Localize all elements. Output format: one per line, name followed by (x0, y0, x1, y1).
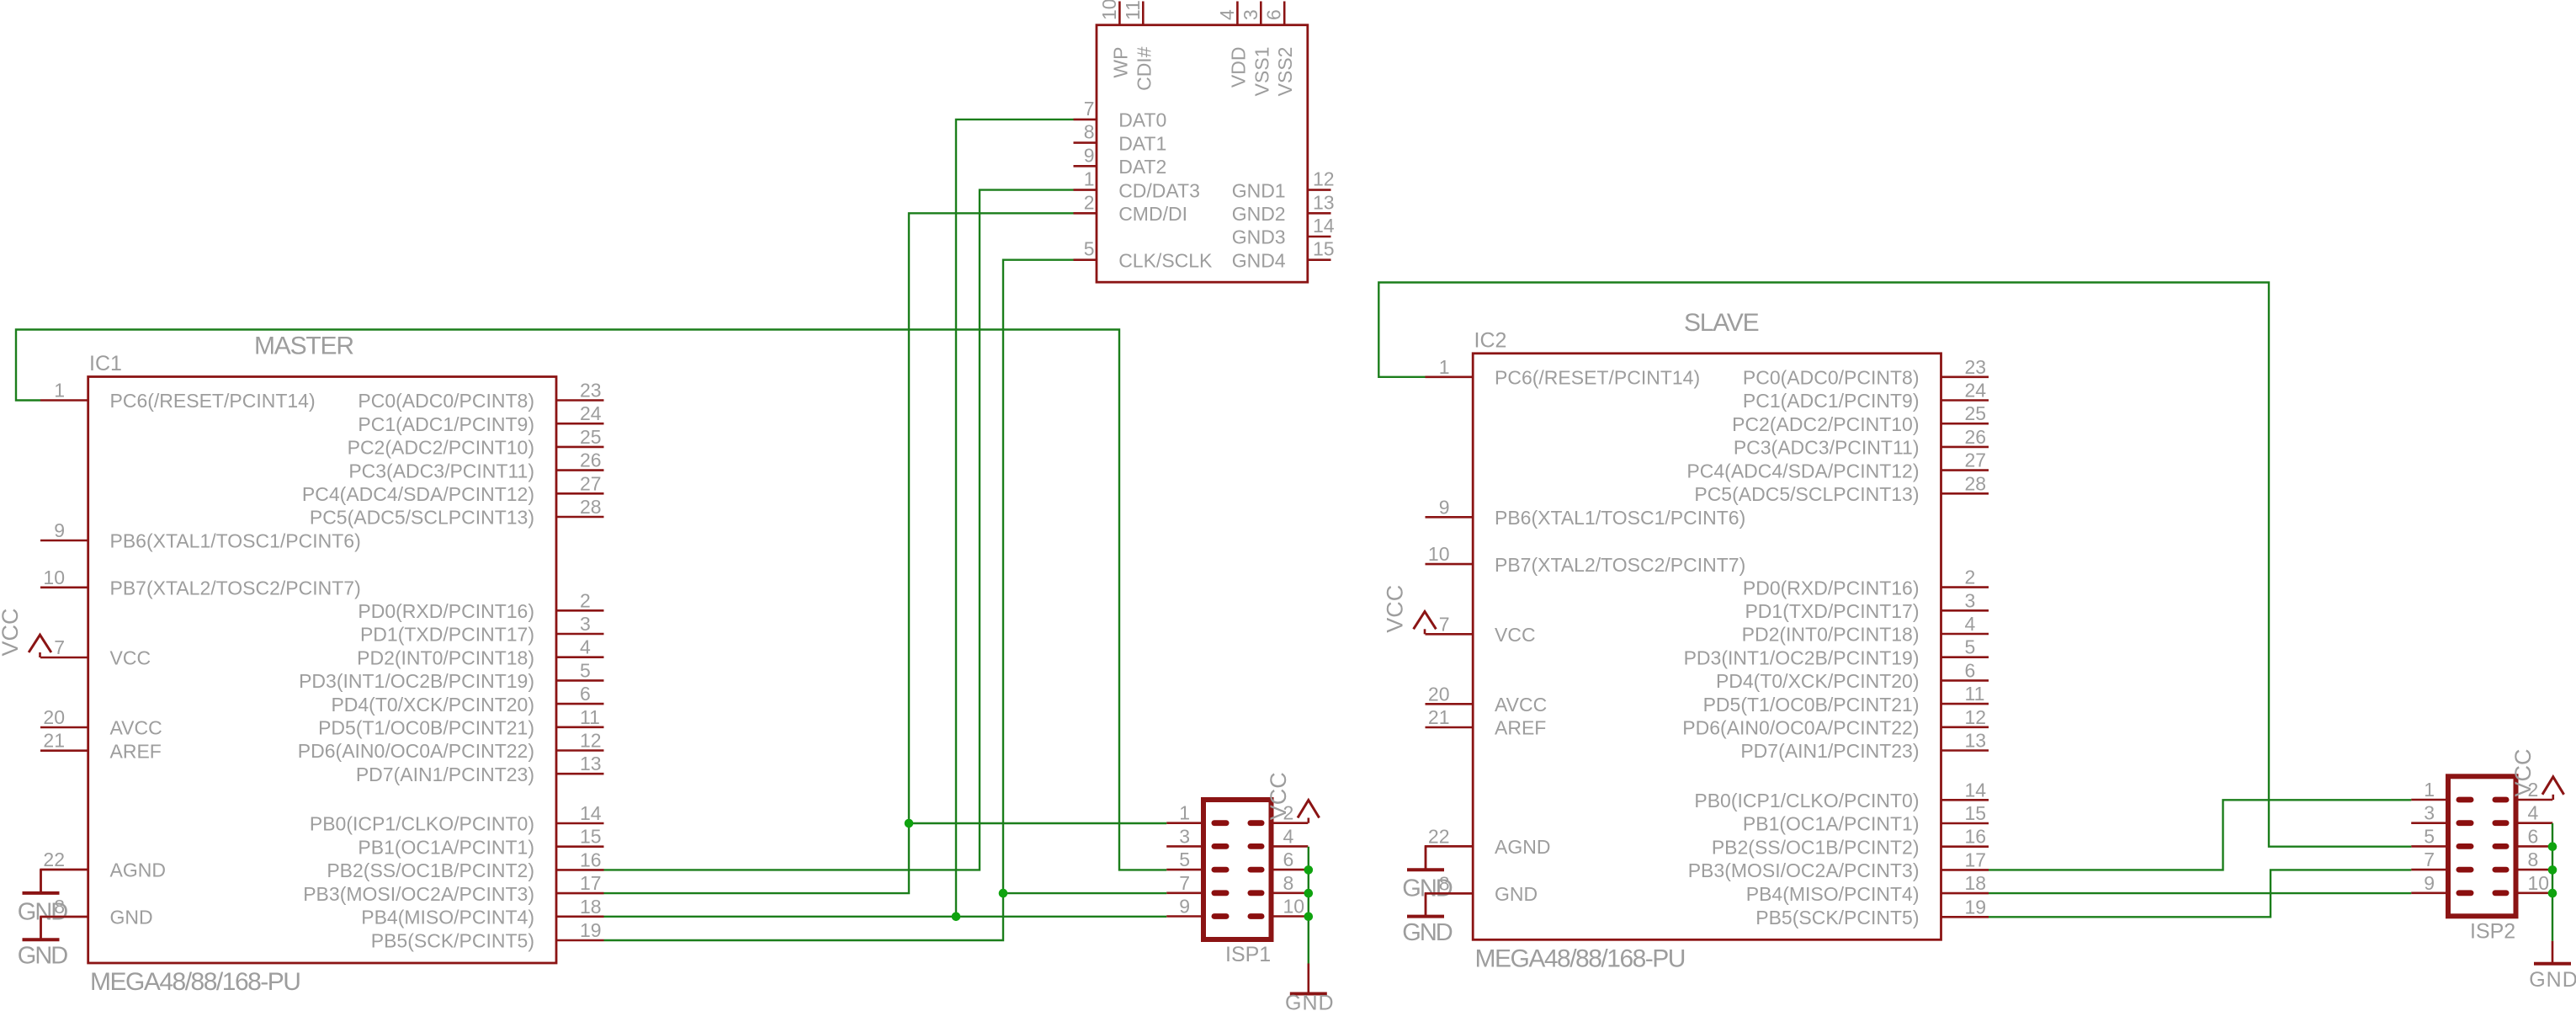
IC2 body outline (1473, 354, 1941, 940)
IC2 pin 4 PD2(INT0/PCINT18) (1742, 613, 1989, 646)
ISP2 pin 1 (2411, 779, 2473, 802)
IC2 pin 19 PB5(SCK/PCINT5) (1755, 896, 1989, 929)
ISP1 pin 7 (1166, 872, 1229, 896)
svg-text:26: 26 (580, 450, 602, 471)
svg-text:26: 26 (1965, 426, 1987, 448)
svg-text:13: 13 (1313, 191, 1335, 213)
svg-text:ISP1: ISP1 (1225, 943, 1271, 966)
svg-text:DAT2: DAT2 (1118, 156, 1166, 178)
svg-text:6: 6 (1263, 9, 1285, 20)
svg-text:3: 3 (580, 613, 591, 635)
svg-text:GND3: GND3 (1232, 226, 1286, 248)
ground symbol GND under ISP1 (1285, 964, 1335, 1011)
SD pin 2 CMD/DI (1074, 191, 1187, 225)
IC2 pin 2 PD0(RXD/PCINT16) (1743, 567, 1989, 599)
IC1 pin 26 PC3(ADC3/PCINT11) (348, 450, 603, 482)
wire net MOSI2: IC2 PB3 pin17 to ISP2 pin1 (1989, 800, 2411, 870)
SD pin 6 VSS2 (top) (1263, 2, 1297, 97)
IC2 pin 1 PC6(/RESET/PCINT14) (1426, 356, 1701, 389)
svg-text:9: 9 (54, 519, 65, 541)
IC1 pin 9 PB6(XTAL1/TOSC1/PCINT6) (40, 519, 361, 552)
svg-text:7: 7 (1179, 872, 1190, 894)
SD pin 10 WP (top) (1098, 0, 1132, 78)
svg-text:GND: GND (1285, 992, 1335, 1011)
junction ISP1 pin10 (1304, 913, 1314, 922)
svg-text:PD6(AIN0/OC0A/PCINT22): PD6(AIN0/OC0A/PCINT22) (1682, 717, 1919, 739)
IC1 pin 19 PB5(SCK/PCINT5) (371, 919, 604, 952)
power symbol VCC at IC1 VCC pin 7 (29, 635, 51, 657)
IC1 pin 21 AREF (40, 730, 162, 763)
svg-text:PC2(ADC2/PCINT10): PC2(ADC2/PCINT10) (1732, 413, 1919, 435)
SD pin 8 DAT1 (1074, 121, 1167, 155)
junction MISO1 (952, 913, 961, 922)
IC1 pin 17 PB3(MOSI/OC2A/PCINT3) (303, 872, 603, 905)
svg-text:PD6(AIN0/OC0A/PCINT22): PD6(AIN0/OC0A/PCINT22) (298, 740, 534, 762)
svg-text:20: 20 (1428, 683, 1450, 705)
svg-text:VCC: VCC (110, 647, 151, 669)
svg-text:15: 15 (580, 826, 602, 848)
ISP header ISP2 (2x5 pin) (2411, 748, 2563, 943)
svg-text:6: 6 (2528, 825, 2539, 847)
SD card body outline (1097, 25, 1308, 283)
svg-text:5: 5 (2424, 825, 2435, 847)
ISP header ISP1 (2x5 pin) (1166, 772, 1319, 966)
IC2 pin 23 PC0(ADC0/PCINT8) (1743, 356, 1989, 389)
svg-text:PC1(ADC1/PCINT9): PC1(ADC1/PCINT9) (1743, 390, 1920, 412)
IC1 pin 22 AGND (40, 849, 166, 881)
ISP1 pin 1 (1166, 802, 1229, 826)
junction SCK1 (999, 889, 1008, 898)
IC1 pin 11 PD5(T1/OC0B/PCINT21) (318, 706, 603, 739)
svg-text:PC1(ADC1/PCINT9): PC1(ADC1/PCINT9) (358, 413, 534, 435)
svg-text:PD4(T0/XCK/PCINT20): PD4(T0/XCK/PCINT20) (331, 694, 534, 716)
svg-text:PB7(XTAL2/TOSC2/PCINT7): PB7(XTAL2/TOSC2/PCINT7) (110, 577, 361, 599)
svg-text:PB3(MOSI/OC2A/PCINT3): PB3(MOSI/OC2A/PCINT3) (1688, 859, 1920, 881)
svg-text:4: 4 (1283, 825, 1294, 847)
svg-text:5: 5 (1179, 849, 1190, 870)
svg-text:9: 9 (2424, 872, 2435, 894)
svg-text:9: 9 (1439, 496, 1450, 518)
IC2 pin 14 PB0(ICP1/CLKO/PCINT0) (1694, 779, 1989, 811)
svg-text:GND1: GND1 (1232, 179, 1286, 201)
svg-text:2: 2 (1965, 567, 1976, 588)
wire net RESET1: IC1 pin1 to ISP1 pin5 (16, 330, 1166, 870)
svg-text:1: 1 (1179, 802, 1190, 824)
IC2 pin 24 PC1(ADC1/PCINT9) (1743, 380, 1989, 412)
svg-text:VCC: VCC (1495, 624, 1536, 646)
svg-text:23: 23 (580, 380, 602, 402)
wire net SCK1 branch to ISP1 pin7 (1003, 892, 1166, 894)
svg-text:18: 18 (580, 896, 602, 918)
ISP1 pin 4 (1248, 825, 1309, 849)
svg-text:VCC: VCC (0, 608, 23, 656)
svg-text:3: 3 (1179, 825, 1190, 847)
IC2 pin 11 PD5(T1/OC0B/PCINT21) (1703, 683, 1989, 716)
svg-text:ISP2: ISP2 (2470, 919, 2515, 943)
IC2 pin 22 AGND (1426, 825, 1551, 858)
svg-text:PD7(AIN1/PCINT23): PD7(AIN1/PCINT23) (356, 764, 534, 785)
svg-text:SLAVE: SLAVE (1684, 309, 1759, 337)
svg-text:18: 18 (1965, 872, 1987, 894)
IC1 pin 12 PD6(AIN0/OC0A/PCINT22) (298, 730, 604, 763)
ISP2 pin 3 (2411, 802, 2473, 826)
svg-text:11: 11 (580, 706, 600, 728)
svg-text:MEGA48/88/168-PU: MEGA48/88/168-PU (1475, 945, 1685, 973)
wire IC1 GND pin 8 to ground (41, 917, 88, 939)
svg-text:PC4(ADC4/SDA/PCINT12): PC4(ADC4/SDA/PCINT12) (302, 483, 534, 505)
svg-text:PB2(SS/OC1B/PCINT2): PB2(SS/OC1B/PCINT2) (327, 859, 534, 881)
svg-text:PC5(ADC5/SCLPCINT13): PC5(ADC5/SCLPCINT13) (310, 507, 534, 529)
svg-text:GND: GND (110, 907, 153, 929)
IC1 pin 10 PB7(XTAL2/TOSC2/PCINT7) (40, 567, 361, 599)
svg-text:PD2(INT0/PCINT18): PD2(INT0/PCINT18) (357, 647, 534, 668)
SD pin 5 CLK/SCLK (1074, 238, 1214, 272)
svg-text:14: 14 (1313, 215, 1335, 237)
SD pin 4 VDD (top) (1216, 2, 1250, 88)
ISP1 pin 10 (1248, 896, 1309, 919)
svg-text:VDD: VDD (1227, 47, 1249, 88)
svg-text:MASTER: MASTER (254, 333, 353, 360)
svg-text:AREF: AREF (110, 740, 162, 762)
svg-text:AREF: AREF (1495, 717, 1546, 739)
svg-text:22: 22 (43, 849, 65, 870)
wire IC2 AGND pin 22 to ground (1426, 846, 1473, 870)
svg-text:PD1(TXD/PCINT17): PD1(TXD/PCINT17) (360, 624, 534, 646)
svg-text:8: 8 (1283, 872, 1294, 894)
svg-text:14: 14 (1965, 779, 1987, 801)
svg-text:PB0(ICP1/CLKO/PCINT0): PB0(ICP1/CLKO/PCINT0) (310, 813, 534, 835)
IC2 pin 5 PD3(INT1/OC2B/PCINT19) (1684, 636, 1989, 669)
svg-text:PB2(SS/OC1B/PCINT2): PB2(SS/OC1B/PCINT2) (1712, 836, 1920, 858)
IC1 pin 24 PC1(ADC1/PCINT9) (358, 402, 603, 435)
ISP1 pin 6 (1248, 849, 1309, 872)
ISP2 pin 4 (2493, 802, 2553, 826)
svg-text:12: 12 (580, 730, 602, 752)
SD pin 7 DAT0 (1074, 98, 1167, 131)
svg-text:7: 7 (1084, 98, 1095, 120)
svg-text:10: 10 (1283, 896, 1305, 918)
IC2 pin 8 GND (1426, 872, 1538, 905)
IC1 pin 16 PB2(SS/OC1B/PCINT2) (327, 849, 603, 881)
svg-text:1: 1 (1084, 168, 1095, 190)
SD pin 14 GND3 (1232, 215, 1335, 248)
IC2 pin 17 PB3(MOSI/OC2A/PCINT3) (1688, 849, 1989, 881)
svg-text:1: 1 (2424, 779, 2435, 801)
IC1 pin 25 PC2(ADC2/PCINT10) (348, 426, 604, 459)
svg-text:CMD/DI: CMD/DI (1118, 203, 1187, 225)
svg-text:6: 6 (580, 683, 591, 705)
svg-text:27: 27 (580, 472, 602, 494)
svg-text:24: 24 (580, 402, 602, 424)
svg-text:GND: GND (1402, 919, 1453, 946)
svg-text:PC6(/RESET/PCINT14): PC6(/RESET/PCINT14) (1495, 367, 1700, 389)
IC2 pin 7 VCC (1426, 613, 1536, 646)
IC2 pin 25 PC2(ADC2/PCINT10) (1732, 402, 1989, 435)
wire net RESET2: IC2 pin1 to ISP2 pin5 (1378, 283, 2411, 847)
svg-text:PB4(MISO/PCINT4): PB4(MISO/PCINT4) (1746, 883, 1920, 905)
svg-text:7: 7 (54, 636, 65, 658)
IC1 body outline (88, 377, 556, 964)
IC2 pin 16 PB2(SS/OC1B/PCINT2) (1712, 826, 1989, 859)
svg-text:7: 7 (2424, 849, 2435, 870)
power symbol VCC at ISP1 pin 2 (1266, 772, 1320, 823)
svg-text:VSS1: VSS1 (1251, 47, 1272, 97)
svg-text:15: 15 (1965, 802, 1987, 824)
IC2 pin 10 PB7(XTAL2/TOSC2/PCINT7) (1426, 543, 1746, 576)
IC2 pin 12 PD6(AIN0/OC0A/PCINT22) (1682, 706, 1989, 739)
svg-text:11: 11 (1122, 0, 1144, 20)
power symbol VCC at IC2 VCC pin 7 (1414, 612, 1437, 635)
junction ISP2 pin10 (2548, 889, 2557, 898)
IC1 pin 20 AVCC (40, 706, 162, 739)
SD pin 9 DAT2 (1074, 144, 1167, 178)
svg-text:AGND: AGND (110, 859, 166, 881)
svg-text:6: 6 (1283, 849, 1294, 870)
wire net GND2: ISP2 pins 4,6,8,10 bus (2552, 823, 2553, 941)
svg-text:19: 19 (580, 919, 602, 941)
wire net SCK2: IC2 PB5 pin19 to ISP2 pin7 (1989, 870, 2411, 917)
svg-text:19: 19 (1965, 896, 1987, 918)
svg-text:3: 3 (1240, 9, 1261, 20)
svg-text:4: 4 (2528, 802, 2539, 824)
svg-text:3: 3 (2424, 802, 2435, 824)
ISP2 body outline (2448, 776, 2516, 916)
IC1 pin 14 PB0(ICP1/CLKO/PCINT0) (310, 802, 604, 835)
IC1 pin 27 PC4(ADC4/SDA/PCINT12) (302, 472, 604, 505)
svg-text:PC3(ADC3/PCINT11): PC3(ADC3/PCINT11) (1734, 437, 1920, 459)
wire net SS1: SD CD/DAT3 to IC1 PB2 pin16 (604, 190, 1074, 870)
svg-text:PB4(MISO/PCINT4): PB4(MISO/PCINT4) (361, 907, 534, 929)
SD card socket U3 (1074, 0, 1335, 282)
svg-text:16: 16 (580, 849, 602, 870)
svg-text:PB1(OC1A/PCINT1): PB1(OC1A/PCINT1) (358, 836, 534, 858)
wire net MISO1: SD DAT0 down to PB4 row (956, 120, 1074, 917)
ISP1 pin 5 (1166, 849, 1229, 872)
svg-text:PB6(XTAL1/TOSC1/PCINT6): PB6(XTAL1/TOSC1/PCINT6) (110, 530, 361, 552)
svg-text:PD0(RXD/PCINT16): PD0(RXD/PCINT16) (1743, 577, 1920, 599)
SD pin 12 GND1 (1232, 168, 1335, 202)
ISP2 pin 9 (2411, 872, 2473, 896)
svg-text:5: 5 (1965, 636, 1976, 658)
svg-text:12: 12 (1965, 706, 1987, 728)
wire net SCK1: SD CLK/SCLK to IC1 PB5 pin19 (604, 260, 1074, 940)
IC2 pin 18 PB4(MISO/PCINT4) (1746, 872, 1989, 905)
IC2 SLAVE microcontroller MEGA48/88/168-PU (1426, 309, 1989, 973)
svg-text:5: 5 (1084, 238, 1095, 260)
svg-text:GND: GND (2529, 968, 2576, 992)
svg-text:25: 25 (580, 426, 602, 448)
svg-text:24: 24 (1965, 380, 1987, 402)
junction ISP2 pin8 (2548, 865, 2557, 875)
svg-text:8: 8 (2528, 849, 2539, 870)
svg-text:PB1(OC1A/PCINT1): PB1(OC1A/PCINT1) (1743, 813, 1920, 835)
IC2 pin 26 PC3(ADC3/PCINT11) (1734, 426, 1989, 459)
svg-text:PC2(ADC2/PCINT10): PC2(ADC2/PCINT10) (348, 437, 534, 459)
svg-text:20: 20 (43, 706, 65, 728)
svg-text:25: 25 (1965, 402, 1987, 424)
svg-text:10: 10 (2528, 872, 2550, 894)
IC1 pin 2 PD0(RXD/PCINT16) (358, 589, 603, 622)
ISP1 pin 8 (1248, 872, 1309, 896)
svg-text:1: 1 (1439, 356, 1450, 378)
IC2 pin 9 PB6(XTAL1/TOSC1/PCINT6) (1426, 496, 1746, 529)
IC1 MASTER microcontroller MEGA48/88/168-PU (40, 333, 604, 997)
svg-text:PD7(AIN1/PCINT23): PD7(AIN1/PCINT23) (1740, 740, 1919, 762)
svg-text:4: 4 (580, 636, 591, 658)
IC1 pin 6 PD4(T0/XCK/PCINT20) (331, 683, 603, 716)
svg-text:MEGA48/88/168-PU: MEGA48/88/168-PU (90, 968, 300, 996)
svg-text:PC0(ADC0/PCINT8): PC0(ADC0/PCINT8) (358, 390, 534, 412)
IC1 pin 4 PD2(INT0/PCINT18) (357, 636, 603, 669)
IC2 pin 13 PD7(AIN1/PCINT23) (1740, 730, 1989, 763)
IC1 pin 28 PC5(ADC5/SCLPCINT13) (310, 496, 604, 529)
svg-text:10: 10 (43, 567, 65, 588)
svg-text:GND2: GND2 (1232, 203, 1286, 225)
IC2 pin 27 PC4(ADC4/SDA/PCINT12) (1686, 450, 1989, 482)
IC1 pin 18 PB4(MISO/PCINT4) (361, 896, 603, 929)
svg-text:PC3(ADC3/PCINT11): PC3(ADC3/PCINT11) (348, 460, 534, 482)
IC1 pin 1 PC6(/RESET/PCINT14) (40, 380, 316, 412)
junction ISP1 pin8 (1304, 889, 1314, 898)
SD pin 1 CD/DAT3 (1074, 168, 1200, 202)
svg-text:1: 1 (54, 380, 65, 402)
power symbol VCC at ISP2 pin 2 (2510, 748, 2564, 800)
svg-text:DAT0: DAT0 (1118, 109, 1166, 131)
svg-text:17: 17 (580, 872, 602, 894)
IC2 pin 6 PD4(T0/XCK/PCINT20) (1716, 659, 1989, 692)
svg-text:CLK/SCLK: CLK/SCLK (1118, 249, 1213, 271)
IC2 pin 20 AVCC (1426, 683, 1548, 716)
svg-text:PB3(MOSI/OC2A/PCINT3): PB3(MOSI/OC2A/PCINT3) (303, 883, 534, 905)
svg-text:9: 9 (1084, 144, 1095, 166)
svg-text:28: 28 (1965, 472, 1987, 494)
svg-text:GND: GND (18, 943, 68, 970)
ISP1 pin 2 (1248, 802, 1309, 826)
svg-text:9: 9 (1179, 896, 1190, 918)
wire net MOSI1: SD CMD/DI to IC1 PB3 pin17 (604, 213, 1074, 893)
svg-text:PD5(T1/OC0B/PCINT21): PD5(T1/OC0B/PCINT21) (318, 717, 534, 739)
SD pin 15 GND4 (1232, 238, 1335, 272)
svg-text:12: 12 (1313, 168, 1335, 190)
junction ISP2 pin6 (2548, 842, 2557, 851)
svg-text:15: 15 (1313, 238, 1335, 260)
svg-text:CD/DAT3: CD/DAT3 (1118, 179, 1200, 201)
svg-text:3: 3 (1965, 589, 1976, 611)
ISP2 pin 5 (2411, 825, 2473, 849)
svg-text:13: 13 (1965, 730, 1987, 752)
svg-text:WP: WP (1109, 47, 1131, 78)
svg-text:VSS2: VSS2 (1274, 47, 1296, 97)
svg-text:10: 10 (1098, 0, 1120, 20)
svg-text:PD5(T1/OC0B/PCINT21): PD5(T1/OC0B/PCINT21) (1703, 694, 1920, 716)
svg-text:7: 7 (1439, 613, 1450, 635)
svg-text:AVCC: AVCC (110, 717, 162, 739)
ground symbol GND at IC1 GND (18, 917, 68, 970)
svg-text:PB7(XTAL2/TOSC2/PCINT7): PB7(XTAL2/TOSC2/PCINT7) (1495, 554, 1745, 576)
IC1 pin 13 PD7(AIN1/PCINT23) (356, 753, 604, 785)
wire IC1 AGND pin 22 to ground (41, 870, 88, 893)
IC1 pin 7 VCC (40, 636, 151, 669)
SD pin 13 GND2 (1232, 191, 1335, 225)
svg-text:VCC: VCC (2510, 748, 2536, 796)
IC2 pin 28 PC5(ADC5/SCLPCINT13) (1694, 472, 1989, 505)
ISP1 pin 3 (1166, 825, 1229, 849)
svg-text:GND: GND (18, 898, 68, 925)
SD pin 11 CDI# (top) (1122, 0, 1155, 91)
svg-text:16: 16 (1965, 826, 1987, 848)
svg-text:4: 4 (1216, 9, 1238, 20)
svg-text:21: 21 (43, 730, 65, 752)
svg-text:2: 2 (580, 589, 591, 611)
ISP2 pin 8 (2493, 849, 2553, 872)
SD pin 3 VSS1 (top) (1240, 2, 1273, 97)
svg-text:GND4: GND4 (1232, 249, 1286, 271)
svg-text:VCC: VCC (1266, 772, 1291, 820)
svg-text:PD4(T0/XCK/PCINT20): PD4(T0/XCK/PCINT20) (1716, 670, 1920, 692)
ground symbol GND at IC1 AGND (18, 870, 68, 925)
svg-text:22: 22 (1428, 825, 1450, 847)
svg-text:27: 27 (1965, 450, 1987, 471)
svg-text:PC0(ADC0/PCINT8): PC0(ADC0/PCINT8) (1743, 367, 1920, 389)
svg-text:6: 6 (1965, 659, 1976, 681)
svg-text:PD2(INT0/PCINT18): PD2(INT0/PCINT18) (1742, 624, 1920, 646)
svg-text:8: 8 (1084, 121, 1095, 143)
svg-text:13: 13 (580, 753, 602, 774)
svg-text:PD1(TXD/PCINT17): PD1(TXD/PCINT17) (1745, 600, 1919, 622)
svg-text:5: 5 (580, 659, 591, 681)
svg-text:PD3(INT1/OC2B/PCINT19): PD3(INT1/OC2B/PCINT19) (299, 670, 534, 692)
svg-text:CDI#: CDI# (1133, 46, 1155, 91)
wire IC2 GND pin 8 to ground (1426, 893, 1473, 916)
ISP2 pin 10 (2493, 872, 2553, 896)
ISP2 pin 7 (2411, 849, 2473, 872)
ISP2 pin 2 (2493, 779, 2553, 802)
junction MOSI1 (905, 819, 914, 828)
ground symbol GND at IC2 AGND (1402, 846, 1453, 902)
junction ISP1 pin6 (1304, 865, 1314, 875)
svg-text:PB0(ICP1/CLKO/PCINT0): PB0(ICP1/CLKO/PCINT0) (1694, 790, 1919, 811)
ISP2 pin 6 (2493, 825, 2553, 849)
IC1 pin 15 PB1(OC1A/PCINT1) (358, 826, 603, 859)
svg-text:17: 17 (1965, 849, 1987, 870)
ISP1 body outline (1203, 800, 1272, 939)
svg-text:23: 23 (1965, 356, 1987, 378)
IC1 pin 23 PC0(ADC0/PCINT8) (358, 380, 603, 412)
svg-text:GND: GND (1402, 875, 1453, 902)
svg-text:21: 21 (1428, 706, 1450, 728)
svg-text:14: 14 (580, 802, 602, 824)
svg-text:IC2: IC2 (1474, 328, 1507, 352)
wire net MOSI1 branch to ISP1 pin1 (909, 822, 1166, 824)
svg-text:VCC: VCC (1383, 585, 1408, 633)
svg-text:DAT1: DAT1 (1118, 132, 1166, 154)
svg-text:AVCC: AVCC (1495, 694, 1547, 716)
svg-text:PC5(ADC5/SCLPCINT13): PC5(ADC5/SCLPCINT13) (1694, 483, 1919, 505)
svg-text:PC6(/RESET/PCINT14): PC6(/RESET/PCINT14) (110, 390, 316, 412)
svg-text:PD0(RXD/PCINT16): PD0(RXD/PCINT16) (358, 600, 534, 622)
svg-text:2: 2 (1084, 191, 1095, 213)
wire net GND1: ISP1 pins 4,6,8,10 bus (1308, 847, 1309, 964)
ground symbol GND under ISP2 (2529, 941, 2576, 992)
svg-text:4: 4 (1965, 613, 1976, 635)
svg-text:PB5(SCK/PCINT5): PB5(SCK/PCINT5) (1755, 907, 1919, 929)
svg-text:PC4(ADC4/SDA/PCINT12): PC4(ADC4/SDA/PCINT12) (1686, 460, 1919, 482)
IC2 pin 3 PD1(TXD/PCINT17) (1745, 589, 1989, 622)
svg-text:AGND: AGND (1495, 836, 1550, 858)
IC1 pin 3 PD1(TXD/PCINT17) (360, 613, 604, 646)
svg-text:IC1: IC1 (89, 352, 122, 375)
svg-text:PB6(XTAL1/TOSC1/PCINT6): PB6(XTAL1/TOSC1/PCINT6) (1495, 507, 1745, 529)
